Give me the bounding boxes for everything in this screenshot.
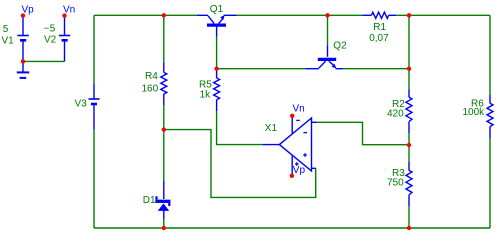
node D1 bottom rail junction (162, 226, 166, 230)
wire right branch lower (489, 138, 491, 228)
node top rail R1-R2 junction (407, 13, 411, 17)
node V1-V2-ground junction (21, 59, 25, 63)
svg-text:R4: R4 (145, 71, 158, 82)
wire left branch lower (93, 130, 95, 228)
wire R4 node to op-amp plus input (164, 130, 316, 198)
wire Q2 base to top rail (327, 15, 329, 45)
svg-text:V1: V1 (2, 35, 15, 46)
node op-amp Vn pin dot (290, 114, 294, 118)
resistor R6 (487, 95, 493, 138)
svg-text:−5: −5 (44, 23, 56, 34)
node R4-D1 junction (162, 127, 166, 131)
transistor Q1 (197, 15, 237, 36)
svg-text:X1: X1 (265, 123, 278, 134)
wire D1 column top (163, 130, 165, 181)
node R2 top junction (407, 67, 411, 71)
node top rail R4 junction (162, 13, 166, 17)
svg-text:Vp: Vp (293, 165, 306, 176)
svg-text:R1: R1 (373, 22, 386, 33)
wire R2 column bottom (408, 133, 410, 145)
wire R3 column bottom (408, 206, 410, 228)
svg-text:D1: D1 (143, 195, 156, 206)
node R3 bottom rail junction (407, 226, 411, 230)
resistor R3 (406, 162, 412, 206)
resistor R4 (161, 63, 167, 106)
wire R2 column top (408, 15, 410, 89)
node Vp junction dot (21, 13, 25, 17)
svg-text:160: 160 (142, 84, 159, 95)
wire Q1 base to node (216, 37, 218, 69)
svg-text:0,07: 0,07 (369, 33, 389, 44)
svg-text:Q1: Q1 (210, 4, 224, 15)
wire Q2 right to R2 column (343, 68, 409, 70)
wire right branch upper (489, 15, 491, 95)
node Q1 base R5 junction (214, 67, 218, 71)
ground (17, 61, 29, 78)
wire node to Q2 left (217, 68, 306, 70)
wire top rail left segment (94, 14, 197, 16)
wire R3 column top (408, 145, 410, 162)
svg-text:Q2: Q2 (333, 41, 347, 52)
svg-text:100k: 100k (463, 107, 486, 118)
svg-text:5: 5 (3, 24, 9, 35)
wire top rail right segment (396, 14, 490, 16)
voltage source V1 (17, 17, 28, 61)
transistor Q2 (305, 45, 343, 68)
svg-text:1k: 1k (200, 90, 212, 101)
wire V1 to V2 bottom (23, 60, 65, 62)
wire bottom rail (94, 227, 490, 229)
svg-text:Vn: Vn (293, 104, 305, 115)
wire op-amp minus input to R2 node (317, 122, 410, 144)
voltage source V2 (59, 17, 70, 61)
wire R5 bottom to op-amp output (217, 111, 263, 144)
wire R4 column bottom (163, 105, 165, 130)
node Vn junction dot (62, 13, 66, 17)
wire left branch upper (93, 15, 95, 83)
node R2-R3 junction (407, 143, 411, 147)
wire top rail middle segment (237, 14, 363, 16)
zener diode D1 (163, 181, 165, 219)
svg-text:750: 750 (387, 178, 404, 189)
svg-text:V3: V3 (75, 99, 88, 110)
wire D1 column bottom (163, 219, 165, 228)
node op-amp Vp pin dot (290, 174, 294, 178)
svg-text:V2: V2 (44, 34, 57, 45)
svg-text:420: 420 (387, 108, 404, 119)
node top rail Q2 base junction (325, 13, 329, 17)
resistor R2 (406, 90, 412, 134)
op-amp U1 (X1) (262, 116, 316, 175)
resistor R5 (214, 69, 220, 112)
voltage source V3 (89, 83, 100, 129)
wire R4 column top (163, 15, 165, 62)
resistor R1 (363, 12, 397, 18)
